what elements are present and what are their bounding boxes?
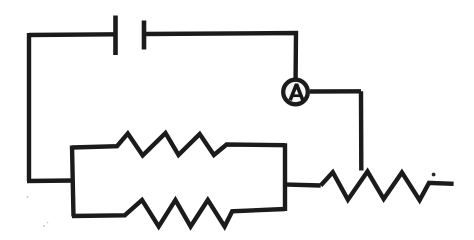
- rheostat R3 zigzag: [321, 172, 454, 201]
- battery B1 long plate: [113, 16, 118, 56]
- wire junction to parallel box: [27, 178, 74, 183]
- battery B1 short plate: [142, 21, 147, 50]
- node left side of parallel combination: [72, 146, 74, 217]
- wire rheostat tap vertical: [359, 91, 364, 170]
- ink speck dot above rheostat end: [432, 173, 436, 177]
- ammeter U1 circle: [283, 80, 308, 105]
- wire left vertical: [27, 33, 31, 181]
- wire top-left from battery to left corner: [29, 32, 115, 37]
- wire from parallel box to rheostat: [283, 184, 321, 185]
- ammeter U1 label A: [290, 84, 303, 100]
- resistor R2 bottom branch: [72, 200, 285, 227]
- wire from ammeter right to corner: [310, 89, 361, 94]
- node right side of parallel combination: [283, 143, 287, 211]
- wire top-right from battery to ammeter: [144, 33, 296, 78]
- faint scan specks bottom-left: [27, 196, 49, 227]
- resistor R1 top branch: [72, 133, 285, 156]
